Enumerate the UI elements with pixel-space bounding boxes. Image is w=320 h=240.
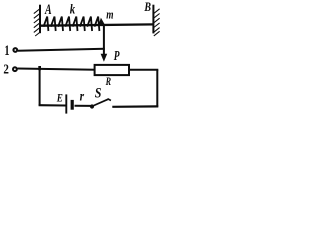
svg-text:A: A [44, 1, 51, 17]
svg-text:R: R [105, 76, 111, 89]
wire battery to switch [75, 105, 91, 107]
switch pivot dot [90, 104, 94, 108]
link rod from m down to wiper [103, 25, 105, 55]
switch blade [92, 99, 108, 106]
svg-text:k: k [70, 1, 76, 16]
right vertical wire [156, 70, 158, 107]
wire 2 [17, 69, 95, 70]
battery plate short [71, 100, 74, 110]
svg-text:B: B [144, 1, 152, 14]
svg-text:m: m [106, 8, 114, 22]
switch blade tip nub [108, 99, 111, 101]
junction on wire 2 [38, 66, 41, 70]
rod (spring baseline from wall A to wall B) [41, 24, 154, 25]
left vertical wire [39, 69, 41, 106]
terminal 1 [13, 48, 17, 52]
resistor R body [95, 65, 129, 75]
wall B [153, 5, 159, 36]
wire 1 [18, 49, 105, 51]
svg-text:S: S [95, 84, 102, 101]
spring end coil (filled) [99, 18, 105, 25]
terminal 2 [13, 67, 17, 71]
svg-text:E: E [56, 93, 63, 105]
wiper P arrow [101, 54, 108, 62]
wall A [34, 5, 40, 36]
svg-text:1: 1 [4, 42, 9, 58]
bottom wire right [112, 105, 158, 108]
battery plate long [65, 94, 67, 113]
svg-text:P: P [114, 49, 120, 64]
svg-text:2: 2 [3, 61, 9, 76]
bottom wire left [39, 104, 66, 106]
svg-text:r: r [80, 89, 85, 104]
wire R to right corner [129, 69, 159, 71]
spring k (coil loops) [44, 17, 100, 31]
